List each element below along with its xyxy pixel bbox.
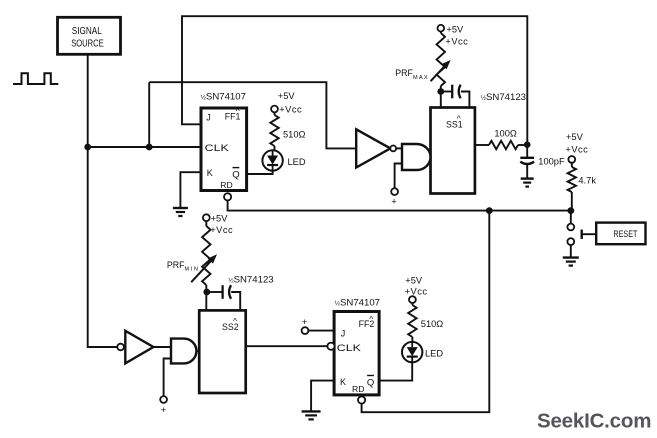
wire FF2 RD riser to reset line xyxy=(362,211,490,413)
svg-text:^: ^ xyxy=(236,106,240,116)
capacitor C2 (SS2 timing) xyxy=(223,285,231,299)
label 510 ohm R2 xyxy=(421,319,444,329)
ground C3 xyxy=(521,179,534,187)
gate G1 xyxy=(402,144,431,170)
svg-text:CLK: CLK xyxy=(205,143,230,154)
svg-text:J: J xyxy=(341,328,346,338)
input terminal J FF2 xyxy=(302,317,309,334)
svg-text:+: + xyxy=(302,317,308,328)
svg-text:K: K xyxy=(340,377,346,387)
wire gate G2 enable input xyxy=(164,359,171,397)
node reset line - FF2 riser xyxy=(486,207,493,214)
wire feedback riser from CLK node xyxy=(148,82,150,147)
LED D2 xyxy=(402,342,422,362)
node reset line - pullup xyxy=(567,207,574,214)
svg-text:510Ω: 510Ω xyxy=(421,319,444,329)
wire R1 to LED D1 xyxy=(274,146,276,150)
flip-flop FF1 box xyxy=(201,108,247,191)
wire J terminal to FF2 xyxy=(308,330,334,332)
flip-flop FF2 box xyxy=(334,312,379,395)
wire FF1 Qbar to LED D1 xyxy=(247,171,273,174)
wire FF2 K to ground xyxy=(311,381,334,412)
inverter U3 input terminal xyxy=(117,344,124,351)
svg-text:½SN74107: ½SN74107 xyxy=(201,92,246,103)
label SN74107 for FF2 xyxy=(335,298,380,309)
pin bubble RD FF2 xyxy=(358,396,365,403)
pin label Qbar FF1 xyxy=(232,168,239,181)
pin label RD FF1 xyxy=(220,180,232,190)
wire FF1 K to ground xyxy=(180,172,201,208)
node feedback-CLK junction xyxy=(146,144,153,151)
wire gate G1 enable input xyxy=(395,164,402,189)
ground FF2 K xyxy=(302,411,321,419)
wire R5 wiper node to SS1 pin xyxy=(440,86,442,108)
inverter U3 xyxy=(125,331,153,364)
gate G2 xyxy=(171,339,196,364)
wire R3 to node A xyxy=(518,144,527,146)
wire signal source to clock line xyxy=(87,54,89,147)
label LED D2 xyxy=(425,349,443,359)
svg-text:½SN74107: ½SN74107 xyxy=(335,298,380,309)
svg-text:4.7k: 4.7k xyxy=(578,175,596,185)
pin bubble CLK FF2 xyxy=(327,343,334,350)
svg-text:RESET: RESET xyxy=(613,229,637,239)
wire wiper node to capacitor C2 xyxy=(207,291,222,293)
node R6 wiper xyxy=(203,289,210,296)
svg-text:+: + xyxy=(161,405,167,416)
svg-text:PRF: PRF xyxy=(167,260,185,270)
pin label K FF2 xyxy=(340,377,346,387)
svg-text:+5V: +5V xyxy=(566,132,584,142)
svg-text:½SN74123: ½SN74123 xyxy=(481,92,526,103)
svg-text:+5V: +5V xyxy=(278,91,296,101)
label FF2 xyxy=(359,314,375,329)
svg-text:+5V: +5V xyxy=(405,275,423,285)
svg-text:+: + xyxy=(391,197,397,208)
power terminal +5V/+Vcc for R2 xyxy=(405,275,428,303)
power terminal +5V/+Vcc for R5 xyxy=(438,24,469,46)
node R5 wiper xyxy=(437,88,444,95)
svg-text:+5V: +5V xyxy=(211,214,229,224)
svg-text:+5V: +5V xyxy=(446,24,464,34)
svg-text:LED: LED xyxy=(288,157,306,167)
wire SS2 output to FF2 CLK xyxy=(246,345,328,347)
wire +5V terminal to R5 potentiometer xyxy=(440,31,442,33)
wire wiper node to capacitor C1 xyxy=(441,91,452,93)
wire SS1 output to resistor R3 xyxy=(475,144,489,146)
svg-text:Q: Q xyxy=(232,169,239,180)
label SS1 xyxy=(446,114,463,130)
pin label J FF1 xyxy=(206,112,211,122)
wire inverter U2 to gate G1 xyxy=(396,147,402,149)
label SN74123 for SS2 xyxy=(228,274,273,285)
svg-text:M I N: M I N xyxy=(185,267,198,273)
svg-text:+Vcc: +Vcc xyxy=(405,286,428,296)
capacitor C3 100pF xyxy=(520,158,534,164)
wire signal down to inverter U3 xyxy=(88,147,118,347)
wire +5V terminal to R6 potentiometer xyxy=(205,221,207,226)
svg-text:Q: Q xyxy=(367,377,374,388)
wire +5V terminal to R4 xyxy=(571,163,573,167)
wire node A to capacitor C3 xyxy=(526,145,528,157)
gate G2 enable terminal xyxy=(160,396,167,416)
switch S1 contact bottom xyxy=(567,238,574,245)
pin label K FF1 xyxy=(207,168,213,178)
wire FF2 Qbar to LED D2 xyxy=(379,363,412,381)
resistor R4 4.7k xyxy=(568,167,576,192)
label PRF_MAX xyxy=(395,68,428,81)
potentiometer R6 PRF_MIN element xyxy=(202,226,210,285)
power terminal +5V/+Vcc for R1 xyxy=(271,91,302,114)
pin label Qbar FF2 xyxy=(367,376,374,389)
svg-text:J: J xyxy=(206,112,211,122)
resistor R1 510 ohm xyxy=(270,115,278,146)
LED D1 xyxy=(262,150,282,170)
wire inverter U3 to gate G2 xyxy=(153,346,171,348)
wire R2 to LED D2 xyxy=(411,337,413,342)
svg-text:100Ω: 100Ω xyxy=(494,128,517,138)
svg-text:^: ^ xyxy=(457,114,461,124)
wire +5V terminal to R2 xyxy=(411,303,413,305)
svg-text:½SN74123: ½SN74123 xyxy=(228,274,273,285)
wire R4 to reset node xyxy=(571,192,573,211)
wire feedback top run to inverter U2 xyxy=(149,82,356,148)
resistor R2 510 ohm xyxy=(408,305,416,337)
label 510 ohm R1 xyxy=(283,129,306,139)
square wave input symbol xyxy=(13,73,58,84)
svg-text:K: K xyxy=(207,168,213,178)
pin label J FF2 xyxy=(341,328,346,338)
svg-text:+Vcc: +Vcc xyxy=(445,36,468,46)
signal source box xyxy=(58,17,121,54)
svg-text:+Vcc: +Vcc xyxy=(279,104,302,114)
switch S1 contact top xyxy=(567,224,574,231)
wire reset node to switch S1 xyxy=(570,211,572,224)
pin label RD FF2 xyxy=(352,384,364,394)
wire C2 to SS2 pin xyxy=(231,292,240,310)
power terminal +5V/+Vcc for R6 xyxy=(203,214,233,236)
svg-text:RD: RD xyxy=(220,180,232,190)
wire C3 to ground xyxy=(526,165,528,179)
svg-text:RD: RD xyxy=(352,384,364,394)
svg-text:M A X: M A X xyxy=(413,75,428,81)
label 100 ohm R3 xyxy=(494,128,517,138)
wire FF1 RD to reset line xyxy=(228,200,571,210)
svg-text:100pF: 100pF xyxy=(538,157,565,167)
ground S1 xyxy=(563,258,579,266)
label FF1 xyxy=(225,106,241,121)
potentiometer R6 arrow xyxy=(191,254,217,282)
reset box xyxy=(596,223,645,245)
label SN74123 for SS1 xyxy=(481,92,526,103)
svg-text:SeekIC.com: SeekIC.com xyxy=(537,410,651,433)
wire switch S1 to ground xyxy=(570,245,572,258)
svg-text:LED: LED xyxy=(425,349,443,359)
potentiometer R5 arrow xyxy=(431,60,451,81)
label LED D1 xyxy=(288,157,306,167)
inverter U2 output bubble xyxy=(390,146,396,152)
svg-text:^: ^ xyxy=(369,314,373,324)
resistor R3 100 ohm xyxy=(489,141,518,149)
label PRF_MIN xyxy=(167,260,198,272)
node A junction xyxy=(524,141,531,148)
wire gate G2 output to SS2 xyxy=(197,350,200,352)
label SN74107 for FF1 xyxy=(201,92,246,103)
svg-text:SOURCE: SOURCE xyxy=(71,38,104,49)
wire R6 wiper node to SS2 pin xyxy=(205,285,207,310)
one-shot SS2 box xyxy=(199,310,246,393)
potentiometer R5 PRF_MAX element xyxy=(437,33,445,86)
gate G1 enable terminal xyxy=(391,188,398,207)
wire C1 to SS1 pin xyxy=(461,92,470,108)
label SS2 xyxy=(222,316,239,332)
svg-text:^: ^ xyxy=(233,316,237,326)
ground FF1 K xyxy=(173,208,188,216)
wire terminal to R1 xyxy=(274,112,276,115)
svg-text:510Ω: 510Ω xyxy=(283,129,306,139)
svg-text:+Vcc: +Vcc xyxy=(565,145,588,155)
node signal-CLK junction xyxy=(84,144,91,151)
svg-text:PRF: PRF xyxy=(395,68,413,78)
inverter U2 xyxy=(356,129,390,167)
wire clock line to FF1 CLK xyxy=(88,146,201,148)
watermark SeekIC.com xyxy=(537,410,651,433)
pin label CLK FF2 xyxy=(337,343,362,354)
svg-text:SIGNAL: SIGNAL xyxy=(72,26,102,37)
pin label CLK FF1 xyxy=(205,143,230,154)
pin bubble RD FF1 xyxy=(224,193,231,200)
power terminal +5V/+Vcc for R4 xyxy=(565,132,588,163)
label 100pF xyxy=(538,157,565,167)
svg-text:+Vcc: +Vcc xyxy=(210,225,233,235)
wire FF1 J loop to SS1 output node xyxy=(182,16,527,145)
svg-text:CLK: CLK xyxy=(337,343,362,354)
label 4.7k xyxy=(578,175,596,185)
capacitor C1 (SS1 timing) xyxy=(452,85,460,99)
switch S1 actuator xyxy=(582,230,597,239)
one-shot SS1 box xyxy=(431,108,475,194)
